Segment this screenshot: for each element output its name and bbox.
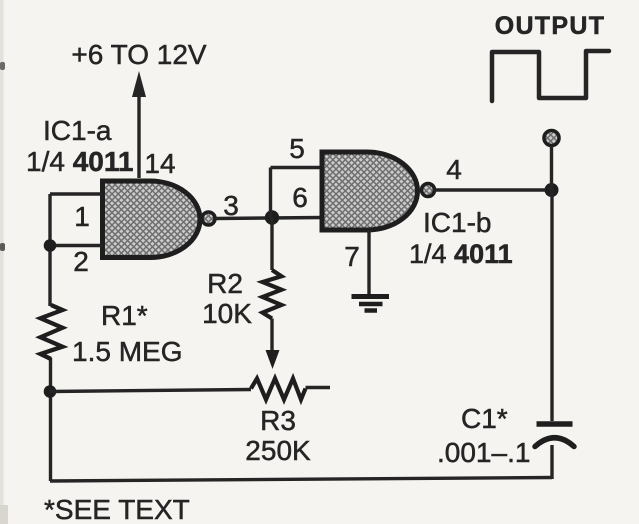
supply arrowhead	[132, 71, 146, 97]
svg-text:250K: 250K	[245, 435, 311, 466]
svg-text:2: 2	[73, 246, 89, 277]
resistor R3 (pot element)	[251, 379, 306, 400]
svg-text:5: 5	[289, 133, 305, 164]
svg-text:*SEE TEXT: *SEE TEXT	[44, 494, 190, 524]
svg-text:1: 1	[74, 201, 90, 232]
svg-text:1.5 MEG: 1.5 MEG	[72, 336, 182, 367]
wiper arrowhead	[266, 350, 280, 369]
wire pin 2	[50, 244, 102, 247]
node junction pins 1-2	[44, 239, 57, 252]
svg-text:6: 6	[292, 182, 308, 213]
inverter bubble IC1-b output	[422, 184, 435, 197]
wire R2 to wiper arrow	[270, 319, 273, 352]
svg-text:IC1-a: IC1-a	[43, 115, 112, 146]
svg-text:.001–.1: .001–.1	[437, 437, 530, 468]
wire node to R2	[270, 217, 273, 270]
capacitor C1 top plate	[537, 421, 573, 427]
svg-text:1/4 4011: 1/4 4011	[26, 146, 133, 177]
svg-text:OUTPUT: OUTPUT	[495, 12, 606, 40]
wire pin 7	[367, 230, 370, 295]
svg-text:R1*: R1*	[101, 300, 148, 331]
svg-text:10K: 10K	[202, 298, 252, 329]
svg-text:R3: R3	[260, 405, 296, 436]
wire pin 5 horizontal	[271, 166, 323, 169]
svg-text:3: 3	[223, 190, 239, 221]
wire terminal to node	[550, 146, 553, 190]
node junction output	[545, 183, 559, 197]
resistor R2	[263, 270, 282, 319]
op-amp U1: NAND gate IC1-a body	[103, 181, 201, 258]
wire pin 4 output	[435, 188, 553, 191]
inverter bubble IC1-a output	[202, 212, 215, 225]
svg-text:1/4 4011: 1/4 4011	[409, 239, 513, 269]
wire pin 1	[50, 192, 102, 195]
wire bottom rail	[50, 478, 552, 482]
node junction pin3/pin5/pin6/R2	[265, 210, 279, 224]
svg-text:IC1-b: IC1-b	[423, 207, 491, 238]
op-amp U2: NAND gate IC1-b body	[322, 152, 417, 230]
svg-text:14: 14	[144, 148, 175, 179]
svg-text:7: 7	[344, 241, 360, 272]
resistor R1	[41, 305, 63, 359]
wire right rail lower	[550, 445, 553, 479]
output square-wave symbol	[492, 51, 609, 101]
wire R1 node to R3	[50, 390, 251, 392]
wire pin 14 supply arrow shaft	[137, 96, 140, 178]
wire left rail upper	[48, 194, 51, 306]
svg-text:+6 TO 12V: +6 TO 12V	[71, 39, 206, 70]
svg-text:C1*: C1*	[461, 403, 508, 434]
svg-text:4: 4	[446, 154, 462, 185]
wire right rail upper	[550, 190, 553, 421]
output terminal	[544, 131, 559, 146]
wire pin 5 vertical	[269, 168, 272, 218]
node junction R1 bottom	[44, 385, 57, 398]
wire pin 3 to pin 6	[215, 218, 322, 219]
wire R3 right lead	[306, 386, 331, 389]
svg-text:R2: R2	[207, 268, 243, 299]
ground	[352, 297, 390, 311]
wire left rail lower	[49, 358, 52, 481]
capacitor C1 curved plate	[535, 438, 574, 447]
